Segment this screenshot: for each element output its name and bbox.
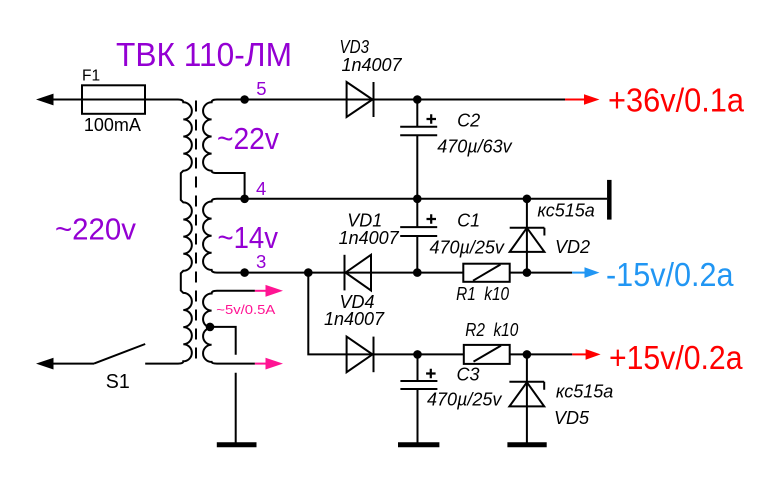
svg-text:кс515а: кс515а — [556, 382, 613, 402]
svg-text:470µ/63v: 470µ/63v — [437, 137, 512, 157]
svg-text:~220v: ~220v — [55, 211, 136, 246]
svg-text:~5v/0.5A: ~5v/0.5A — [216, 302, 275, 317]
svg-text:R2 k10: R2 k10 — [465, 320, 518, 340]
svg-text:VD2: VD2 — [555, 237, 590, 257]
svg-text:S1: S1 — [106, 370, 130, 393]
svg-text:~22v: ~22v — [217, 121, 279, 156]
svg-text:~14v: ~14v — [218, 220, 279, 255]
svg-text:-15v/0.2a: -15v/0.2a — [606, 256, 734, 293]
svg-text:F1: F1 — [82, 67, 100, 84]
svg-text:C3: C3 — [457, 364, 480, 384]
svg-text:C1: C1 — [457, 210, 480, 230]
svg-text:1n4007: 1n4007 — [324, 309, 385, 329]
svg-text:3: 3 — [256, 251, 266, 272]
svg-text:100mA: 100mA — [84, 115, 141, 135]
svg-text:+15v/0.2a: +15v/0.2a — [609, 339, 743, 376]
svg-text:5: 5 — [256, 78, 266, 99]
svg-text:4: 4 — [256, 178, 266, 199]
svg-text:+36v/0.1a: +36v/0.1a — [608, 82, 745, 119]
svg-text:470µ/25v: 470µ/25v — [430, 238, 505, 258]
svg-text:1n4007: 1n4007 — [342, 55, 403, 75]
svg-text:ТВК 110-ЛМ: ТВК 110-ЛМ — [116, 36, 292, 73]
svg-text:кс515а: кс515а — [537, 201, 594, 221]
svg-text:C2: C2 — [457, 111, 480, 131]
svg-text:1n4007: 1n4007 — [339, 228, 400, 248]
svg-text:470µ/25v: 470µ/25v — [427, 390, 502, 410]
svg-text:VD5: VD5 — [554, 408, 590, 428]
svg-text:R1 k10: R1 k10 — [456, 284, 509, 304]
